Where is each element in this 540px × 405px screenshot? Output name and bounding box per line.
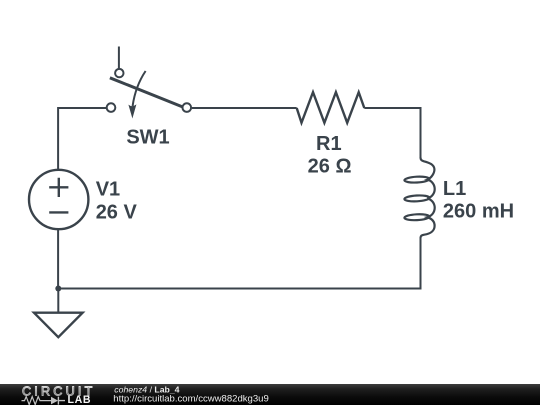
voltage source V1	[29, 170, 88, 229]
CircuitLab logo diode bar and wire	[58, 397, 65, 405]
voltage source V1 body circle	[29, 170, 88, 229]
switch SW1 left terminal circle	[107, 103, 116, 112]
switch SW1 arrowhead	[128, 104, 136, 118]
wire bottom horizontal	[58, 288, 420, 290]
wire right vertical upper	[420, 107, 422, 158]
junction node dot	[55, 286, 61, 292]
svg-text:L1: L1	[443, 178, 466, 200]
wire right vertical lower	[420, 238, 422, 290]
wire left vertical upper	[57, 107, 59, 170]
CircuitLab logo wire with resistor zigzag	[22, 397, 52, 405]
svg-text:R1: R1	[316, 133, 342, 155]
inductor L1 coil	[421, 158, 435, 239]
wire left vertical lower	[57, 230, 59, 289]
switch SW1 right terminal circle	[183, 103, 192, 112]
inductor L1 loop ellipse 3	[404, 214, 429, 221]
inductor L1 loop ellipse 2	[404, 195, 429, 202]
voltage source V1 minus sign	[49, 211, 68, 213]
svg-text:http://circuitlab.com/ccww882d: http://circuitlab.com/ccww882dkg3u9	[113, 393, 268, 404]
svg-text:V1: V1	[96, 178, 120, 200]
wire ground stub	[57, 289, 59, 313]
svg-text:26 Ω: 26 Ω	[308, 156, 352, 178]
footer bar background	[0, 384, 540, 405]
wire top-left horizontal	[58, 107, 106, 109]
ground symbol	[34, 313, 83, 338]
resistor R1	[297, 92, 365, 123]
switch SW1 actuation arrow arc	[133, 71, 146, 106]
svg-text:26 V: 26 V	[96, 202, 138, 224]
voltage source V1 plus sign	[49, 178, 68, 197]
CircuitLab logo diode triangle	[51, 397, 58, 405]
svg-text:LAB: LAB	[68, 394, 92, 405]
footer watermark bar	[0, 384, 540, 405]
switch SW1 top stub wire	[118, 47, 120, 69]
svg-text:260 mH: 260 mH	[443, 200, 514, 222]
wire top-right horizontal	[364, 107, 420, 109]
switch SW1	[107, 47, 191, 119]
wire top middle (switch to resistor)	[192, 107, 297, 109]
inductor L1 loop ellipse 1	[404, 176, 429, 183]
switch SW1 arm bar	[110, 78, 183, 107]
switch SW1 pivot circle	[115, 69, 123, 77]
svg-text:SW1: SW1	[126, 127, 169, 149]
